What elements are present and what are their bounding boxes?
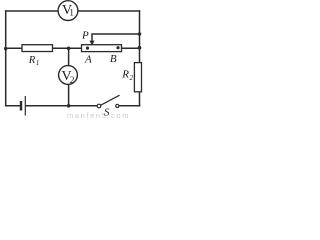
svg-text:R: R <box>121 69 129 81</box>
svg-text:2: 2 <box>130 74 134 82</box>
svg-text:B: B <box>110 53 117 65</box>
svg-text:A: A <box>84 53 92 65</box>
svg-text:manfen5.com: manfen5.com <box>67 111 130 119</box>
svg-text:R: R <box>28 54 36 66</box>
svg-text:1: 1 <box>69 8 74 18</box>
svg-text:P: P <box>81 30 89 42</box>
svg-text:2: 2 <box>70 76 75 86</box>
svg-text:S: S <box>104 107 110 119</box>
svg-text:1: 1 <box>36 59 40 67</box>
